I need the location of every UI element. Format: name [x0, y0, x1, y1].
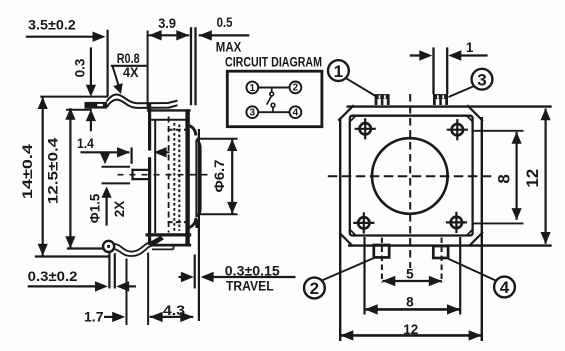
stem ext line a — [190, 27, 192, 105]
top lead foot bar — [85, 102, 108, 109]
circuit pin circle 1 — [246, 82, 258, 94]
inner corner tick TR — [467, 116, 472, 121]
switch contact top — [270, 92, 274, 96]
top lead gullwing upper edge — [107, 95, 178, 104]
lead vertical right — [114, 253, 116, 288]
rivet BL — [353, 212, 374, 233]
chamfer top-right — [467, 105, 483, 121]
dim 1.7 line — [104, 316, 118, 318]
inner corner tick BR — [467, 230, 472, 235]
wire 1-2 — [258, 87, 289, 89]
svg-text:0.3: 0.3 — [73, 58, 88, 77]
hidden stem line bottom dashed — [168, 221, 187, 223]
bottom lead seat end — [173, 245, 175, 249]
dim 4.3 line — [150, 316, 194, 318]
wire 3-4 — [258, 111, 289, 113]
phi6.7 ext top — [197, 138, 238, 140]
rivet TR — [447, 119, 468, 140]
svg-text:1.4: 1.4 — [77, 136, 94, 151]
svg-text:4: 4 — [293, 108, 299, 119]
circuit diagram box — [227, 71, 322, 127]
dim phi6.7 line — [231, 139, 233, 214]
bottom lead S-curve upper edge — [114, 241, 151, 252]
svg-text:1: 1 — [250, 83, 256, 94]
body bottom line upper — [146, 233, 192, 236]
svg-text:MAX: MAX — [216, 40, 241, 55]
svg-text:0.5: 0.5 — [217, 15, 233, 30]
center button circle — [372, 138, 448, 214]
switch stub bottom — [272, 107, 274, 112]
ext line lead center — [106, 30, 108, 96]
svg-text:8: 8 — [495, 174, 514, 183]
chamfer bottom-left — [339, 233, 352, 246]
rivet BR — [446, 212, 467, 233]
svg-text:0.3±0.15: 0.3±0.15 — [225, 263, 281, 278]
stem ext line b — [194, 27, 196, 105]
ref circle 1 — [328, 60, 349, 81]
contact arm bracket end — [131, 169, 133, 180]
side view body — [118, 103, 210, 245]
ext line 4.3 left — [147, 253, 149, 326]
svg-text:4X: 4X — [123, 65, 139, 80]
ext line body top — [66, 109, 92, 111]
ext line 14 bottom — [35, 255, 111, 257]
R0.8 leader arrow — [113, 66, 119, 85]
hatch strip right — [178, 125, 180, 232]
svg-text:2: 2 — [310, 279, 319, 298]
cover band line — [150, 119, 189, 121]
dim 8 bottom ext right — [459, 237, 461, 315]
circuit pin circle 3 — [246, 106, 258, 118]
dim 8 bottom line — [365, 308, 460, 311]
svg-text:3.5±0.2: 3.5±0.2 — [28, 17, 76, 32]
ext line 4.3 right — [194, 255, 196, 289]
svg-text:3.9: 3.9 — [158, 16, 176, 31]
svg-text:14±0.4: 14±0.4 — [20, 143, 35, 199]
chamfer top-left — [338, 105, 354, 121]
phi1.5 arrow bottom — [102, 186, 112, 197]
inner wall line — [154, 120, 156, 233]
dim 1.4 end line — [131, 147, 133, 163]
svg-text:3: 3 — [250, 108, 256, 119]
dim 1 arrows — [410, 54, 426, 56]
ext line 1.7 — [126, 259, 128, 326]
dim 14±0.4 line — [42, 97, 44, 255]
outer body bottom edge + right ext — [348, 244, 552, 246]
pin3 black pad — [433, 94, 448, 105]
dim 0.3 line upper — [90, 47, 92, 90]
body left wall lower — [148, 157, 151, 245]
stem left edge line — [195, 140, 197, 218]
contact arm bracket bottom — [132, 178, 150, 180]
outer body right edge + bottom ext — [481, 117, 483, 341]
dim 1.4 line — [81, 151, 130, 153]
leader line 1 — [345, 78, 375, 96]
bottom lead seat line — [152, 248, 174, 250]
pin4 box — [433, 246, 448, 258]
circuit pin circle 4 — [290, 106, 302, 118]
svg-text:R0.8: R0.8 — [117, 51, 140, 66]
stem flange bottom — [195, 220, 198, 229]
horizontal centerline dash-dot — [118, 174, 210, 176]
svg-text:1: 1 — [334, 62, 343, 81]
dim 8 right line — [515, 132, 517, 220]
pin2 box — [374, 245, 389, 257]
svg-text:TRAVEL: TRAVEL — [226, 278, 274, 293]
ref circle 4 — [494, 277, 515, 298]
lead vertical left — [108, 253, 110, 288]
svg-text:0.3±0.2: 0.3±0.2 — [28, 269, 78, 284]
svg-text:1: 1 — [466, 40, 474, 55]
chamfer bottom-right — [469, 232, 483, 246]
inner corner tick TL — [351, 116, 356, 121]
bottom lead loop ring — [103, 241, 114, 252]
svg-text:Φ1.5: Φ1.5 — [88, 193, 103, 223]
pin3 pillar right — [446, 47, 448, 94]
ref circle 3 — [472, 69, 493, 90]
dim 3.9 ext line — [147, 31, 149, 110]
svg-text:2: 2 — [293, 83, 299, 94]
hatch strip left — [173, 123, 175, 231]
dim 0.5 max line — [199, 34, 250, 36]
body top edge — [147, 109, 191, 111]
body left wall upper — [148, 103, 151, 151]
body bottom line lower — [150, 244, 191, 247]
inner cover square — [350, 116, 473, 236]
ref circle 2 — [304, 278, 325, 299]
switch lever — [267, 96, 272, 105]
svg-text:12: 12 — [403, 322, 418, 337]
ext line lead top — [40, 96, 108, 98]
dim 8 right ext top — [473, 130, 524, 132]
pin1 black pad — [375, 94, 390, 105]
bottom lead loop center dot — [107, 245, 110, 248]
stem shoulder top arc — [188, 125, 196, 135]
phi6.7 ext bottom — [198, 213, 238, 215]
dim 12 bottom line — [340, 334, 481, 337]
dim 0.3 arrow lower — [86, 109, 96, 121]
pin3 pillar left — [432, 47, 434, 94]
top lead foot slot — [97, 104, 103, 106]
svg-text:8: 8 — [406, 295, 414, 310]
phi1.5 arrow top — [104, 153, 106, 158]
centerline horizontal dashed — [328, 175, 494, 177]
svg-text:2X: 2X — [112, 201, 127, 218]
svg-text:Φ6.7: Φ6.7 — [212, 160, 227, 193]
svg-text:12: 12 — [523, 169, 542, 188]
hidden stem line top dashed — [168, 129, 187, 131]
bottom lead S-curve lower edge — [114, 244, 154, 256]
R0.8 label shelf — [111, 65, 147, 67]
dim 12 right line — [544, 109, 546, 244]
svg-text:4: 4 — [500, 278, 510, 297]
inner corner tick BL — [351, 230, 356, 235]
dim 12.5±0.4 line — [69, 108, 71, 248]
stem face ext line long — [198, 129, 200, 321]
stem button face — [196, 140, 201, 216]
top lead gullwing lower edge — [107, 100, 178, 108]
dim 8 right ext bottom — [473, 222, 524, 224]
switch contact bottom — [271, 103, 275, 107]
leader line 2 — [322, 258, 375, 281]
phi1.5 ext bottom — [102, 182, 131, 184]
body right wall — [185, 109, 189, 245]
phi1.5 ext top — [102, 166, 131, 168]
pin4 centerline dashed — [441, 238, 443, 284]
dim travel right arrow — [201, 272, 214, 282]
svg-text:4.3: 4.3 — [163, 303, 186, 318]
centerline vertical dashed — [409, 94, 411, 268]
svg-text:5: 5 — [406, 267, 414, 282]
ext line 12.5 bottom — [67, 247, 103, 249]
bottom lead hook tab — [148, 236, 165, 247]
svg-text:3: 3 — [477, 70, 486, 89]
stem shoulder bottom arc — [188, 218, 196, 228]
dim travel left arrow — [179, 276, 189, 278]
dim 3.9 line with arrows — [149, 34, 190, 36]
switch stub top — [271, 88, 273, 93]
pin2 centerline dashed — [381, 238, 383, 284]
svg-text:12.5±0.4: 12.5±0.4 — [46, 137, 61, 204]
leader line 3 — [449, 86, 475, 97]
dim 8 bottom ext left — [363, 237, 365, 315]
dim 5 bottom line — [382, 280, 442, 282]
svg-text:CIRCUIT DIAGRAM: CIRCUIT DIAGRAM — [225, 54, 322, 69]
circuit pin circle 2 — [290, 82, 302, 94]
leader line 4 — [448, 259, 496, 281]
dashed centerline vertical — [168, 117, 170, 233]
dim 1.4 right arrow — [154, 147, 167, 157]
outer body left edge + bottom ext — [339, 118, 341, 342]
svg-text:1.7: 1.7 — [84, 310, 104, 325]
contact arm bracket top — [132, 169, 150, 171]
dim 0.3±0.2 line — [28, 285, 97, 287]
dim 3.5±0.2 line — [26, 36, 103, 38]
outer body top edge + right ext — [347, 105, 552, 107]
rivet TL — [355, 118, 376, 139]
